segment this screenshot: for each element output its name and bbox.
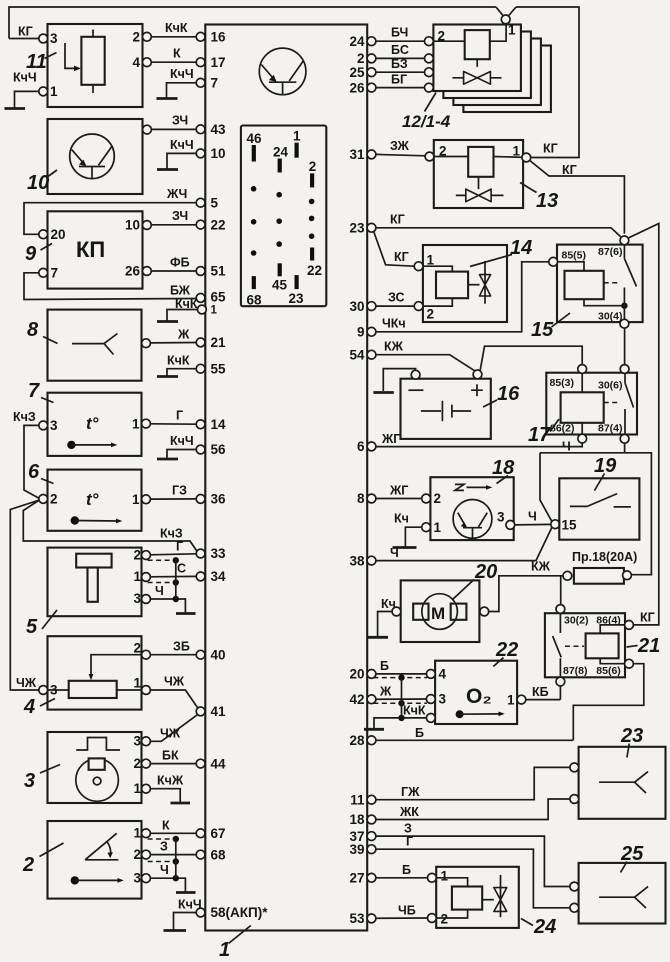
transistor symbol of 10	[70, 134, 115, 179]
svg-text:12/1-4: 12/1-4	[402, 112, 451, 131]
svg-text:ЖК: ЖК	[399, 805, 419, 819]
svg-text:39: 39	[349, 842, 364, 857]
svg-text:ФБ: ФБ	[170, 256, 190, 270]
svg-text:28: 28	[349, 733, 365, 748]
dot-arrow of 22	[456, 710, 464, 718]
wire ЗЧ pin 10 of 9 to ECU pin 22	[151, 224, 196, 226]
svg-text:23: 23	[349, 221, 365, 236]
wire БЧ ECU pin 24 to injector 12/1	[376, 40, 425, 42]
ground (pin 7)	[157, 97, 178, 100]
relay 17	[546, 365, 637, 444]
svg-text:16: 16	[497, 383, 520, 405]
wire КГ 87(6) node rail down to 86(4) of relay 21	[628, 224, 659, 625]
connector pin 23	[295, 275, 299, 289]
plus sign of 16	[471, 384, 483, 396]
svg-text:КЖ: КЖ	[531, 560, 551, 574]
wire КЖ ECU pin 54 to battery plus	[376, 355, 476, 372]
fork symbol of 25	[599, 887, 648, 908]
svg-text:КГ: КГ	[18, 25, 33, 39]
pin 3 of 11	[39, 34, 48, 43]
terminal 30(4) of relay 15	[620, 319, 629, 328]
relay 15 switch	[623, 245, 625, 258]
pin 3 of 22	[426, 695, 435, 704]
svg-text:20: 20	[349, 667, 364, 682]
svg-text:33: 33	[211, 546, 227, 561]
component 11 (ignition coil module)	[26, 24, 151, 107]
shield dashed line pin 1 of 2	[148, 838, 172, 840]
svg-text:19: 19	[594, 455, 617, 477]
junction dot in relay 15	[621, 303, 627, 309]
svg-text:4: 4	[439, 667, 447, 682]
top supply rail wire	[9, 7, 496, 39]
pin 68	[196, 850, 205, 859]
ECU right pins column	[349, 34, 375, 926]
pin 30	[367, 302, 376, 311]
svg-text:ЖГ: ЖГ	[389, 484, 408, 498]
svg-text:56: 56	[211, 442, 227, 457]
svg-text:Б: Б	[380, 659, 389, 673]
wire КЖ fuse to motor 20	[489, 576, 563, 612]
shield vertical wire of 5	[175, 560, 177, 599]
svg-text:87(8): 87(8)	[563, 665, 588, 677]
ground (pin 1)	[157, 320, 178, 323]
svg-text:КП: КП	[76, 237, 105, 262]
svg-text:t°: t°	[86, 490, 99, 509]
svg-text:1: 1	[133, 826, 141, 841]
pin 43	[196, 125, 205, 134]
component 10 (module with transistor)	[27, 119, 151, 194]
svg-text:16: 16	[211, 30, 227, 45]
pin 3 of 2	[142, 874, 151, 883]
shield dashed lines of 22	[373, 677, 427, 679]
svg-text:3: 3	[24, 770, 35, 792]
pin 1 of 7	[142, 419, 151, 428]
ECU left pins column	[196, 30, 268, 921]
svg-text:17: 17	[211, 55, 226, 70]
svg-text:2: 2	[132, 30, 140, 45]
ECU box U1 (component 1)	[205, 25, 367, 931]
pin 18	[367, 815, 376, 824]
pin 3 of 4	[39, 686, 48, 695]
svg-text:3: 3	[50, 418, 58, 433]
svg-text:85(6): 85(6)	[596, 665, 621, 677]
ground (motor 20)	[368, 636, 388, 639]
wire БС ECU pin 2 to injector 12/2	[376, 57, 425, 59]
svg-text:10: 10	[211, 146, 226, 161]
wire КГ ECU pin 23 to 87(6) node of relay 15	[376, 228, 621, 237]
coil of 24	[452, 887, 482, 910]
svg-text:85(5): 85(5)	[562, 250, 587, 262]
wire battery minus to ground	[383, 369, 415, 391]
pin 6	[367, 442, 376, 451]
wire КчЧ ECU pin 10 to ground	[167, 153, 196, 168]
svg-text:3: 3	[133, 870, 141, 885]
svg-text:23: 23	[289, 291, 305, 306]
svg-text:36: 36	[211, 492, 227, 507]
svg-text:30(6): 30(6)	[598, 380, 623, 392]
wire ЧЖ pin 3 of 3 to ECU pin 41	[150, 714, 198, 741]
svg-text:ГЗ: ГЗ	[172, 484, 187, 498]
pin 2 of 18	[422, 494, 431, 503]
svg-text:ЧБ: ЧБ	[398, 904, 416, 918]
pin 40	[196, 650, 205, 659]
pin 20	[367, 670, 376, 679]
svg-text:24: 24	[273, 145, 289, 160]
wire КчК ECU pin 1 to ground	[167, 310, 198, 321]
svg-text:55: 55	[211, 361, 227, 376]
lower pin of 23	[570, 795, 579, 804]
pin 3 of 3	[142, 737, 151, 746]
svg-text:30(2): 30(2)	[564, 614, 589, 626]
svg-text:ЧЖ: ЧЖ	[160, 727, 181, 741]
plunger symbol of 5	[76, 554, 111, 568]
dot-arrow of 7	[67, 441, 75, 449]
svg-text:87(4): 87(4)	[598, 423, 623, 435]
shield vertical wire of 22	[401, 678, 403, 718]
svg-text:БЗ: БЗ	[391, 57, 408, 71]
wire Ж ECU pin 42 to pin 3 of 22	[376, 698, 427, 700]
svg-text:2: 2	[50, 492, 58, 507]
pin 51	[196, 267, 205, 276]
svg-text:23: 23	[620, 725, 643, 747]
svg-text:2: 2	[357, 51, 365, 66]
svg-text:54: 54	[349, 347, 365, 362]
pin 1 of 5	[142, 573, 151, 582]
wire ЖЧ pin 20 of 9 to ECU pin 5	[24, 203, 196, 235]
svg-text:7: 7	[211, 76, 219, 91]
plus terminal of 16	[473, 370, 482, 379]
svg-text:1: 1	[507, 692, 515, 707]
connector dots column 2	[276, 192, 282, 198]
svg-text:65: 65	[211, 290, 227, 305]
wire З pin 2 of 2 to ECU pin 68	[150, 854, 196, 856]
svg-text:2: 2	[309, 159, 317, 174]
svg-text:31: 31	[349, 147, 365, 162]
terminal 85(3) of relay 17	[578, 365, 587, 374]
svg-text:20: 20	[51, 227, 66, 242]
ground (pin 55)	[157, 375, 178, 378]
pin 2 of 24	[428, 914, 437, 923]
svg-text:7: 7	[28, 380, 40, 402]
relay 21 coil	[586, 633, 619, 658]
terminal 85(6) of relay 21	[625, 659, 634, 668]
wire Ч 87(4) of relay 17 to node 15 and to fuse	[540, 443, 651, 575]
svg-text:БК: БК	[162, 749, 179, 763]
svg-text:25: 25	[349, 65, 365, 80]
svg-text:Ч: Ч	[562, 440, 571, 454]
wire 87(8) of relay 21 down to КБ	[559, 686, 561, 700]
svg-text:КГ: КГ	[640, 611, 655, 625]
svg-text:Ж: Ж	[177, 328, 190, 342]
relay 17 switch	[625, 373, 634, 434]
svg-text:14: 14	[211, 417, 227, 432]
svg-text:КчЧ: КчЧ	[13, 71, 37, 85]
upper pin of 23	[570, 763, 579, 772]
wire ЗБ pin 2 of 4 to ECU pin 40	[150, 654, 196, 656]
svg-text:10: 10	[125, 218, 140, 233]
ground (sensor 22)	[364, 728, 384, 731]
pulse waveform of 3	[76, 738, 120, 751]
wire КчК ECU pin 55 to ground	[167, 369, 196, 376]
pin 1 of 14	[414, 262, 423, 271]
connector pin 22	[310, 248, 314, 261]
wire Ч pin 3 of 5 to ground	[150, 599, 185, 613]
svg-text:ЗБ: ЗБ	[173, 640, 190, 654]
ground (battery 16)	[373, 391, 393, 394]
wire КчЖ pin 1 of 3 to ground	[150, 789, 180, 802]
svg-text:1: 1	[211, 305, 218, 317]
wire КчЧ ECU pin 58 to ground	[174, 913, 197, 930]
svg-text:27: 27	[349, 871, 364, 886]
component 18 (ignition module with transistor)	[422, 477, 515, 540]
component 8 (sensor with fork symbol)	[27, 310, 150, 381]
pin 54	[367, 350, 376, 359]
svg-text:2: 2	[133, 547, 141, 562]
svg-text:14: 14	[510, 237, 532, 259]
svg-text:БГ: БГ	[391, 73, 407, 87]
wire Б ECU pin 28 to 85(6) path	[376, 739, 573, 741]
svg-text:68: 68	[211, 847, 227, 862]
pin 9	[367, 327, 376, 336]
svg-text:51: 51	[211, 264, 227, 279]
ground (pin 58)	[164, 929, 187, 932]
pin 1 of 11	[39, 87, 48, 96]
svg-text:1: 1	[132, 492, 140, 507]
svg-text:26: 26	[125, 264, 141, 279]
svg-text:Ч: Ч	[528, 510, 537, 524]
svg-text:21: 21	[211, 335, 227, 350]
connector pin 45	[278, 263, 282, 276]
component 25 (connector with fork symbol)	[570, 863, 666, 924]
svg-text:2: 2	[427, 307, 435, 322]
component 2 (knock/angle sensor)	[22, 821, 150, 899]
svg-text:4: 4	[132, 55, 140, 70]
wire КчЧ pin 1 of 11 to ground	[15, 91, 39, 107]
ground (pin 56)	[157, 458, 178, 461]
component 22 oxygen sensor O2	[426, 661, 525, 724]
wire КБ pin 1 of 22 to 87(8) of relay 21	[526, 699, 561, 701]
svg-text:КчК: КчК	[403, 704, 426, 718]
svg-text:21: 21	[637, 635, 660, 657]
svg-text:68: 68	[247, 293, 263, 308]
svg-text:18: 18	[349, 812, 365, 827]
shield dashed line pin 1 of 5	[148, 582, 172, 584]
component 4 (potentiometer sensor)	[23, 636, 150, 718]
terminal 30(2) of relay 21	[556, 605, 565, 614]
pin 20 of 9	[39, 230, 48, 239]
wire З ECU pin 37 to 25 upper	[376, 836, 570, 886]
svg-text:9: 9	[25, 243, 37, 265]
svg-text:3: 3	[497, 510, 505, 525]
svg-text:Г: Г	[176, 540, 183, 554]
svg-text:КчК: КчК	[175, 297, 198, 311]
motor circle M	[422, 594, 458, 630]
pin 1 of 3	[142, 784, 151, 793]
svg-text:87(6): 87(6)	[598, 246, 623, 258]
pin 2 of 3	[142, 759, 151, 768]
ground (component 18)	[393, 546, 417, 549]
pin 38	[367, 556, 376, 565]
shield pin of 22	[426, 714, 435, 723]
pin 3 of 18	[506, 521, 515, 530]
svg-text:З: З	[160, 840, 168, 854]
svg-text:1: 1	[219, 939, 230, 961]
component 16 battery	[401, 370, 491, 439]
wire Ч pin 3 of 2 to ground	[150, 878, 185, 891]
svg-text:Ж: Ж	[379, 685, 392, 699]
pin 1 of 13	[522, 153, 531, 162]
svg-text:20: 20	[474, 561, 497, 583]
wire Ч ECU pin 38 to node 15	[376, 528, 552, 561]
svg-text:8: 8	[357, 491, 365, 506]
terminal 87(8) of relay 21	[556, 677, 565, 686]
wire К pin 4 of 11 to ECU pin 17	[151, 61, 196, 63]
wire КчЧ ECU pin 56 to ground	[167, 450, 196, 459]
svg-text:ЧКч: ЧКч	[382, 317, 406, 331]
pin 1 of 18	[422, 523, 431, 532]
wire КГ pin 1 of 13 diagonal to 87(6) node	[530, 161, 625, 234]
pin 3 of 7	[39, 421, 48, 430]
pin 58(АКП)*	[196, 908, 205, 917]
component 9 КП (gearbox switch)	[25, 211, 151, 288]
wire battery plus up to 85(3) of relay 17	[480, 346, 582, 371]
pin 2 of 5	[142, 551, 151, 560]
svg-text:Ч: Ч	[390, 546, 399, 560]
svg-text:1: 1	[427, 253, 435, 268]
wire rail right of V to vertical drop	[516, 7, 579, 158]
relay 21 switch	[553, 613, 562, 677]
angle symbol of 2	[85, 833, 118, 860]
svg-text:ЧЖ: ЧЖ	[164, 675, 185, 689]
pin 16	[196, 32, 205, 41]
svg-text:ЖГ: ЖГ	[381, 432, 400, 446]
pin 1 of 6	[142, 495, 151, 504]
pin 2 of 6	[39, 495, 48, 504]
wire ЧКч ECU pin 9 to 85(5) of relay 15	[376, 262, 549, 332]
svg-text:17: 17	[528, 424, 551, 446]
svg-text:30: 30	[349, 299, 364, 314]
svg-text:М: М	[431, 604, 445, 623]
ground (component 3)	[171, 802, 191, 805]
switch symbol of 19	[570, 494, 631, 507]
right terminal of 20	[480, 607, 489, 616]
pin 5	[196, 198, 205, 207]
svg-text:Ч: Ч	[155, 584, 164, 598]
Z-arrow symbol of 18	[455, 484, 464, 490]
svg-text:ГЖ: ГЖ	[401, 785, 420, 799]
svg-text:13: 13	[536, 190, 558, 212]
svg-text:КчЗ: КчЗ	[160, 527, 183, 541]
wire КчЗ pin 3 of 7 down to node of 6	[24, 425, 39, 498]
pin 31	[367, 150, 376, 159]
svg-text:Б: Б	[402, 863, 411, 877]
component 14 (EVAP purge valve)	[414, 245, 507, 322]
leads of 4	[48, 689, 142, 691]
wire КчК shield of 22 to ground	[374, 718, 426, 728]
wire КчЧ ECU pin 7 to ground	[167, 83, 197, 98]
svg-text:22: 22	[307, 263, 322, 278]
terminal 87(6) node circle of relay 15	[620, 236, 629, 245]
svg-text:БЧ: БЧ	[391, 26, 408, 40]
svg-text:ЗЖ: ЗЖ	[390, 139, 410, 153]
wire fuse branch down to 30(2) of relay 21	[560, 576, 562, 605]
svg-text:КчЖ: КчЖ	[157, 774, 184, 788]
svg-text:1: 1	[50, 84, 58, 99]
svg-text:ЖЧ: ЖЧ	[166, 187, 187, 201]
wire Б ECU pin 27 to pin 1 of 24	[376, 877, 428, 879]
wire Г pin 2 of 5 to ECU pin 33	[150, 554, 196, 555]
terminal 85(5) of relay 15	[549, 257, 558, 266]
svg-text:40: 40	[211, 647, 226, 662]
pin 2	[367, 54, 376, 63]
left terminal of 20	[392, 607, 401, 616]
wire ЗЧ output of 10 to ECU pin 43	[151, 128, 196, 130]
component 3 (distributor/speed sensor)	[24, 732, 150, 803]
shield junction dots of 5	[173, 557, 179, 563]
wire long vertical from node of 6 to pin 3 of 4	[10, 500, 39, 690]
wire К pin 1 of 2 to ECU pin 67	[150, 832, 196, 834]
wire ЖК ECU pin 18 to 23 lower	[376, 799, 570, 820]
terminal 86(4) of relay 21	[625, 621, 634, 630]
svg-text:1: 1	[508, 23, 516, 38]
terminal 86(2) of relay 17	[578, 434, 587, 443]
output pin of 8	[142, 339, 151, 348]
rotor circle of 3	[76, 759, 119, 802]
pin 28	[367, 736, 376, 745]
svg-text:4: 4	[23, 696, 35, 718]
wire Ж output of 8 to ECU pin 21	[150, 342, 196, 344]
transistor symbol of 18	[453, 500, 492, 539]
relay 21	[545, 605, 633, 686]
pin 42	[367, 695, 376, 704]
svg-text:БЖ: БЖ	[170, 284, 191, 298]
wire Г ECU pin 39 to 25 lower	[376, 849, 570, 908]
pin 26 of 9	[143, 267, 152, 276]
svg-text:58(АКП)*: 58(АКП)*	[211, 905, 269, 920]
dot-arrow of 2	[71, 876, 79, 884]
valve symbol of 24	[500, 875, 502, 917]
pin 1 of 4	[142, 686, 151, 695]
V junction arms above injector 12/1	[496, 7, 516, 16]
pin 27	[367, 873, 376, 882]
pin 2 of 13	[425, 152, 434, 161]
svg-text:КчЧ: КчЧ	[178, 898, 202, 912]
svg-text:1: 1	[133, 781, 141, 796]
output pin of 10	[143, 125, 152, 134]
svg-text:КБ: КБ	[532, 685, 549, 699]
pin 3 of 5	[142, 595, 151, 604]
svg-text:46: 46	[247, 131, 263, 146]
svg-text:2: 2	[133, 641, 141, 656]
terminal 87(4) of relay 17	[620, 434, 629, 443]
wire 30(4) of relay 15 to 30(6) of relay 17	[624, 328, 626, 364]
pin 34	[196, 572, 205, 581]
svg-text:85(3): 85(3)	[550, 377, 575, 389]
wire ЖГ ECU pin 6 to 86(2) of relay 17	[376, 443, 582, 447]
connector pin 68	[252, 276, 256, 289]
wire 85(6) of relay 21 to pin 28 wire	[573, 664, 644, 741]
shield dashed line pin 2 of 2	[148, 861, 172, 863]
wire ЖГ ECU pin 8 to pin 2 of 18	[376, 498, 422, 500]
pin 4 of 22	[426, 670, 435, 679]
pin 11	[367, 795, 376, 804]
svg-text:15: 15	[531, 319, 554, 341]
wire ГЗ pin 1 of 6 to ECU pin 36	[150, 498, 196, 500]
svg-text:41: 41	[211, 704, 227, 719]
injector valve of 12/1	[464, 72, 491, 85]
svg-text:10: 10	[27, 172, 49, 194]
ground (component 5)	[176, 612, 196, 615]
